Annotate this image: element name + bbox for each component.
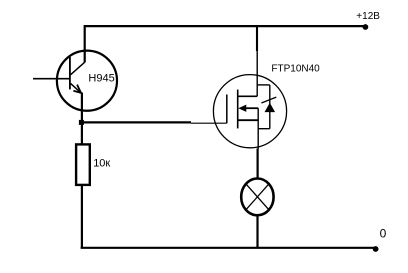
mosfet U1 substrate line <box>243 107 258 109</box>
transistor Q1 emitter stroke <box>70 83 81 93</box>
wire top +12V rail with collector riser <box>85 26 365 62</box>
transistor Q1 body circle <box>57 51 117 111</box>
node +12V terminal <box>363 24 369 30</box>
mosfet U1 channel bar <box>237 90 239 129</box>
mosfet U1 body circle <box>213 75 286 148</box>
lamp HL1 bulb circle <box>241 179 273 216</box>
mosfet U1 body diode top link <box>257 84 270 86</box>
mosfet U1 drain stub <box>238 95 258 97</box>
mosfet U1 body diode wire <box>269 85 271 129</box>
mosfet U1 substrate arrow <box>239 105 246 111</box>
transistor Q1 base lead <box>33 78 69 80</box>
lamp HL1 cross stroke 1 <box>245 183 269 210</box>
wire gate pin lead <box>191 122 227 124</box>
wire emitter to junction <box>81 93 83 124</box>
node junction emitter/resistor/gate <box>79 120 84 125</box>
mosfet U1 drain pin lead <box>256 51 258 96</box>
wire resistor to bottom rail <box>81 185 83 248</box>
mosfet U1 body diode triangle <box>265 104 274 112</box>
transistor Q1 emitter arrow <box>73 85 81 93</box>
mosfet U1 body diode cathode slash <box>261 97 276 103</box>
wire junction to resistor <box>81 123 83 145</box>
resistor R1 body <box>76 144 90 185</box>
transistor Q1 H945 <box>33 51 117 111</box>
mosfet U1 body diode bottom link <box>258 128 270 130</box>
mosfet U1 source stub <box>238 119 259 121</box>
mosfet U1 source pin lead <box>257 108 259 148</box>
lamp HL1 <box>241 179 273 216</box>
wire junction to gate <box>82 121 191 123</box>
mosfet U1 gate bar <box>226 95 228 124</box>
svg-text:+12В: +12В <box>356 11 380 22</box>
mosfet U1 FTP10N40 <box>213 51 286 149</box>
wire drain riser <box>256 26 258 51</box>
wire lamp to bottom rail <box>256 215 258 248</box>
svg-text:FTP10N40: FTP10N40 <box>271 64 320 75</box>
svg-text:10к: 10к <box>93 157 110 169</box>
wire bottom 0V rail <box>81 247 376 249</box>
transistor Q1 collector stroke <box>71 62 85 74</box>
svg-text:0: 0 <box>380 227 387 241</box>
node 0V terminal <box>373 246 379 252</box>
wire source to lamp <box>257 149 259 180</box>
lamp HL1 cross stroke 2 <box>245 183 269 210</box>
svg-text:H945: H945 <box>88 72 114 84</box>
transistor Q1 base bar <box>69 57 71 90</box>
